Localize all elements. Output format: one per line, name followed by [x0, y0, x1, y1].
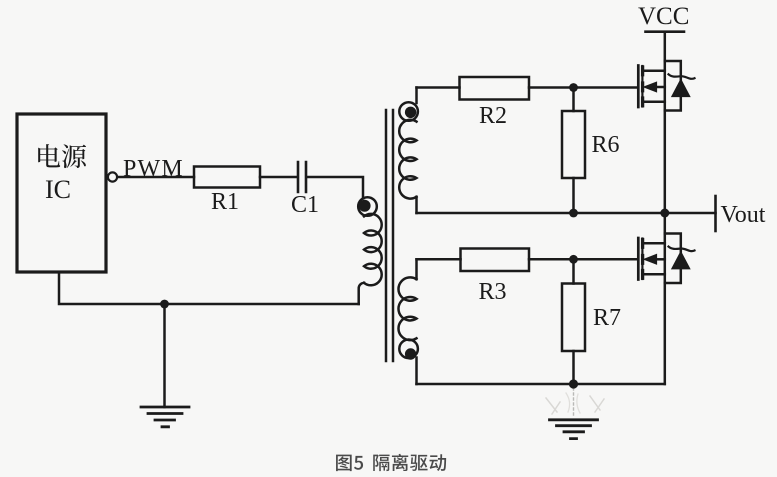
- ground right faint link: [573, 388, 575, 416]
- resistor R1: [194, 167, 260, 188]
- resistor R3: [461, 249, 530, 272]
- wire R1 to C1: [260, 176, 297, 179]
- svg-text:C1: C1: [291, 192, 319, 218]
- svg-text:R3: R3: [479, 279, 507, 305]
- resistor R6: [562, 111, 585, 178]
- node secondary top phase dot: [405, 107, 416, 118]
- capacitor C1: [298, 162, 306, 192]
- caption 图5 隔离驱动: [336, 454, 446, 471]
- transformer secondary top winding: [415, 88, 418, 104]
- wire bottom loop upper rail: [417, 258, 461, 261]
- diode D1 triangle: [672, 80, 689, 96]
- node R3 gate junction: [569, 255, 578, 264]
- svg-text:PWM: PWM: [123, 156, 184, 182]
- Vout terminal tick: [714, 196, 717, 231]
- wire PWM output: [118, 176, 195, 179]
- wire R7 top: [572, 259, 575, 283]
- resistor R2: [460, 77, 530, 100]
- wire C1 to primary: [307, 177, 363, 198]
- diode D2 triangle: [672, 252, 689, 268]
- IC U1 电源IC box: [17, 114, 106, 272]
- svg-text:IC: IC: [45, 175, 71, 204]
- wire R6 top: [572, 88, 575, 112]
- wire R3 to gate: [529, 258, 637, 261]
- node ground junction left: [160, 300, 169, 309]
- wire mosfet Q2 source down: [664, 213, 667, 384]
- node secondary bottom phase dot: [405, 348, 416, 359]
- svg-text:VCC: VCC: [638, 3, 689, 30]
- node primary phase dot: [359, 200, 371, 212]
- mosfet Q1 gate bar: [637, 66, 640, 108]
- resistor R7: [562, 284, 585, 352]
- transformer secondary bottom winding: [415, 259, 418, 279]
- svg-text:R7: R7: [593, 305, 621, 331]
- svg-text:R2: R2: [479, 103, 507, 129]
- mosfet Q2 gate bar: [637, 238, 640, 280]
- transformer core: [386, 110, 393, 361]
- IC label 电源: [38, 144, 86, 168]
- body diode D1 loop: [665, 61, 681, 111]
- mosfet Q1 source stub: [643, 101, 665, 104]
- diode D2 cathode wave: [669, 247, 695, 252]
- ground left: [141, 407, 189, 427]
- wire VCC to drain: [664, 32, 667, 213]
- wire R7 bottom: [572, 351, 575, 384]
- node Vout junction: [660, 209, 669, 218]
- mosfet Q1 drain stub: [643, 70, 665, 73]
- wire R6 bottom: [572, 178, 575, 213]
- VCC bar: [646, 30, 685, 33]
- wire R2 to gate: [529, 86, 637, 89]
- svg-text:Vout: Vout: [721, 202, 766, 228]
- mosfet Q2 channel: [641, 239, 643, 280]
- mosfet Q2 drain stub: [643, 242, 665, 245]
- mosfet Q2 body stub + arrow: [656, 258, 665, 261]
- terminal PWM circle: [108, 172, 117, 181]
- node ground junction right: [569, 379, 578, 388]
- node R2 gate junction: [569, 83, 578, 92]
- transformer primary winding: [358, 197, 377, 216]
- ground right: [550, 420, 598, 439]
- wire Vout rail: [417, 212, 716, 215]
- mosfet Q1 channel: [641, 66, 643, 107]
- wire primary bottom rail: [59, 272, 359, 304]
- wire bottom rail: [417, 383, 665, 386]
- body diode D2 loop: [665, 234, 681, 284]
- wire ground drop left: [163, 304, 166, 407]
- mosfet Q1 body stub + arrow: [656, 86, 665, 89]
- watermark artifact marks: [546, 396, 604, 414]
- wire top loop upper rail: [417, 86, 460, 89]
- diode D1 cathode wave: [669, 74, 695, 79]
- node R6 rail junction: [569, 209, 578, 218]
- svg-text:R6: R6: [592, 132, 620, 158]
- svg-text:R1: R1: [211, 189, 239, 215]
- mosfet Q2 source stub: [643, 273, 665, 276]
